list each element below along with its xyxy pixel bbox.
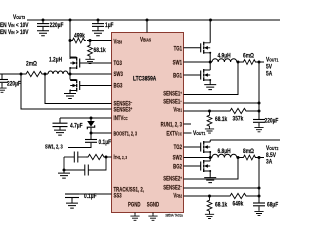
- svg-text:649k: 649k: [232, 201, 244, 208]
- resistor R22 68.1k: [205, 196, 228, 219]
- capacitor CIN 220uF input: [0, 74, 21, 92]
- wire SENSE2+: [184, 158, 239, 180]
- node BOOST junction: [90, 132, 93, 135]
- svg-text:SENSE2−: SENSE2−: [163, 184, 182, 191]
- svg-text:VOUT3: VOUT3: [13, 15, 25, 22]
- svg-text:4.7µF: 4.7µF: [70, 123, 83, 130]
- wire VIN input line: [0, 73, 24, 75]
- node VFB3 divider tap: [69, 39, 72, 42]
- transistor Q2b BG2 bottom fet: [184, 158, 217, 183]
- node VOUT1 fb junction: [258, 110, 261, 113]
- svg-text:VOUT1: VOUT1: [266, 57, 279, 64]
- svg-text:0.1µF: 0.1µF: [98, 140, 111, 147]
- IC pin labels left side: [114, 37, 160, 209]
- wire EXTVCC stub: [184, 132, 192, 134]
- svg-text:SW3: SW3: [114, 71, 123, 78]
- transistor Q1a TG1 top fet: [184, 20, 212, 62]
- inductor L1 4.9uH: [212, 53, 237, 62]
- capacitor C31 220uF VOUT3: [37, 20, 64, 36]
- wire SENSE1+: [184, 62, 239, 95]
- svg-text:68.1k: 68.1k: [215, 202, 228, 209]
- transistor Q1b BG1 bottom fet: [184, 62, 217, 90]
- IC pin labels right side: [161, 46, 183, 200]
- svg-text:3A: 3A: [266, 159, 272, 166]
- svg-text:357k: 357k: [232, 116, 244, 123]
- svg-text:6.8µH: 6.8µH: [218, 149, 231, 156]
- inductor L3 1.2uH: [48, 57, 68, 74]
- svg-text:ITH1, 2, 3: ITH1, 2, 3: [114, 154, 128, 161]
- wire BG3 gate: [80, 85, 112, 87]
- svg-text:5V: 5V: [266, 64, 272, 71]
- node SW3 junction: [69, 73, 72, 76]
- wire INTVCC: [60, 117, 112, 119]
- node VFB1 divider: [208, 110, 211, 113]
- svg-text:LTC3859A: LTC3859A: [133, 76, 156, 83]
- wire VFB3 to pin: [90, 40, 112, 42]
- svg-text:TG1: TG1: [174, 46, 182, 53]
- capacitor C33 4.7uF INTVCC: [53, 118, 84, 135]
- wire to VOUT1 label: [256, 61, 264, 63]
- svg-text:EN VIN < 10V: EN VIN < 10V: [0, 23, 29, 30]
- svg-text:1µF: 1µF: [105, 23, 114, 30]
- node SW2 junction: [209, 156, 212, 159]
- label VOUT1: [266, 57, 279, 78]
- node VFB3: [89, 39, 92, 42]
- node VOUT2 fb junction: [258, 195, 261, 198]
- svg-text:SENSE3+: SENSE3+: [114, 107, 133, 114]
- capacitor CSS 0.1uF TRACK/SS: [65, 194, 112, 209]
- inductor L2 6.8uH: [212, 149, 237, 158]
- svg-text:VOUT1: VOUT1: [193, 131, 206, 138]
- node VOUT1: [258, 61, 261, 64]
- wire TG3 gate: [80, 62, 112, 64]
- svg-text:68µF: 68µF: [267, 202, 279, 209]
- wire SW3 node: [68, 73, 112, 75]
- wire VOUT3 rail: [27, 19, 280, 21]
- node INTVCC diode junction: [90, 117, 93, 120]
- node sense3- tap: [44, 73, 47, 76]
- svg-text:SGND: SGND: [147, 202, 160, 209]
- svg-text:499k: 499k: [74, 33, 86, 40]
- svg-text:68.1k: 68.1k: [94, 48, 107, 55]
- node sense3+ tap: [20, 73, 23, 76]
- svg-text:SENSE2+: SENSE2+: [163, 176, 182, 183]
- ground SGND: [148, 213, 157, 221]
- svg-text:VFB1: VFB1: [173, 107, 182, 114]
- svg-text:3859A TA01a: 3859A TA01a: [165, 213, 183, 217]
- transistor Q2a TG2 top fet: [184, 140, 212, 158]
- svg-text:BOOST1, 2, 3: BOOST1, 2, 3: [114, 131, 138, 137]
- wire SENSE3-: [45, 74, 112, 104]
- wire coil to 6m: [237, 61, 242, 63]
- node SENSE2+ tap: [237, 156, 240, 159]
- svg-text:TG3: TG3: [114, 60, 122, 67]
- node SW1 junction: [209, 61, 212, 64]
- resistor RS1 6mOhm: [242, 53, 257, 64]
- wire VBIAS drop: [146, 20, 148, 33]
- svg-text:BG1: BG1: [173, 73, 182, 80]
- wire VFB1: [184, 110, 229, 112]
- label VOUT2: [266, 146, 278, 166]
- svg-text:1.2µH: 1.2µH: [49, 57, 62, 64]
- wire VIN rail ch2: [210, 139, 280, 141]
- svg-text:2mΩ: 2mΩ: [26, 61, 37, 68]
- wire VOUT2 node down: [258, 158, 260, 204]
- svg-text:8mΩ: 8mΩ: [243, 149, 254, 156]
- wire BOOST pin: [91, 132, 112, 134]
- wire VOUT3 to TG3 drain: [69, 20, 71, 57]
- svg-text:PGND: PGND: [128, 202, 141, 209]
- wire RUN stub: [184, 123, 192, 125]
- capacitor CB 0.1uF boost: [45, 133, 112, 151]
- svg-text:RUN1, 2, 3: RUN1, 2, 3: [161, 122, 182, 129]
- svg-text:220µF: 220µF: [264, 118, 278, 125]
- svg-text:VOUT2: VOUT2: [266, 146, 278, 153]
- svg-text:VBIAS: VBIAS: [140, 37, 151, 44]
- resistor R12 68.1k: [205, 111, 228, 133]
- svg-text:BG2: BG2: [173, 164, 182, 171]
- svg-text:EN VIN > 10V: EN VIN > 10V: [0, 30, 29, 37]
- resistor RS3 2mOhm sense: [24, 61, 44, 77]
- transistor Q3b BG3 bottom fet: [64, 74, 80, 99]
- svg-text:4.9µH: 4.9µH: [218, 53, 231, 60]
- wire SW2: [184, 157, 213, 159]
- ITH RC compensation network: [58, 152, 112, 179]
- wire SENSE2-: [184, 187, 260, 189]
- resistor R32 68.1k: [85, 41, 106, 64]
- svg-text:TG2: TG2: [174, 144, 182, 151]
- resistor R31 499k: [70, 33, 90, 43]
- svg-text:BG3: BG3: [114, 83, 123, 90]
- resistor R11 357k: [228, 108, 259, 122]
- svg-text:68.1k: 68.1k: [215, 117, 228, 124]
- svg-text:SW1: SW1: [173, 60, 182, 67]
- wire VOUT1 node down: [258, 62, 260, 120]
- node junction dots on VOUT3 rail: [42, 19, 213, 22]
- svg-text:0.1µF: 0.1µF: [84, 194, 97, 201]
- diode D1 boost: [87, 118, 95, 133]
- node VFB2 divider: [208, 195, 211, 198]
- IC U1 LTC3859A body: [112, 33, 184, 213]
- resistor RS2 8mOhm: [242, 149, 257, 160]
- wire SENSE3+: [21, 74, 112, 109]
- svg-text:SW1, 2, 3: SW1, 2, 3: [45, 144, 63, 151]
- svg-text:VFB3: VFB3: [114, 39, 123, 46]
- capacitor C21 68uF VOUT2: [253, 202, 279, 216]
- svg-text:SENSE1−: SENSE1−: [163, 99, 182, 106]
- wire resistor to coil: [44, 73, 48, 75]
- wire SW1: [184, 61, 213, 63]
- resistor R21 649k: [228, 193, 259, 207]
- transistor Q3a TG3 top fet: [69, 57, 80, 74]
- wire SENSE1-: [184, 102, 260, 104]
- wire coil to 8m: [237, 157, 242, 159]
- wire to VOUT2 label: [256, 157, 264, 159]
- ground PGND: [130, 213, 139, 221]
- svg-text:VFB2: VFB2: [173, 193, 182, 200]
- capacitor C11 220uF VOUT1: [253, 118, 279, 132]
- svg-text:220µF: 220µF: [50, 23, 64, 30]
- node SENSE1- junction: [258, 102, 261, 105]
- svg-text:6mΩ: 6mΩ: [243, 53, 254, 60]
- svg-text:220µF: 220µF: [7, 81, 21, 88]
- node SENSE2- junction: [258, 187, 261, 190]
- svg-text:SW2: SW2: [173, 155, 182, 162]
- capacitor C32 1uF VBIAS: [92, 20, 114, 36]
- node VOUT3 label: [0, 15, 29, 37]
- svg-text:EXTVCC: EXTVCC: [166, 131, 182, 138]
- svg-text:SENSE1+: SENSE1+: [163, 91, 182, 98]
- svg-text:5A: 5A: [266, 71, 272, 78]
- node VOUT2: [258, 156, 261, 159]
- node SENSE1+ tap: [237, 61, 240, 64]
- wire VFB2: [184, 195, 229, 197]
- svg-text:SS3: SS3: [114, 193, 122, 200]
- svg-text:INTVCC: INTVCC: [114, 115, 128, 122]
